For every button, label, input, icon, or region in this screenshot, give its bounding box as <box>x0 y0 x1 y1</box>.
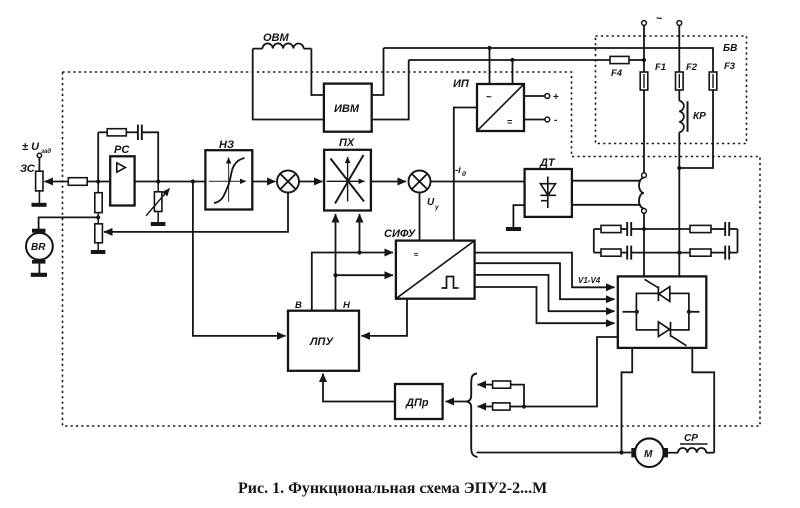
nonlinear block NZ <box>205 150 252 209</box>
label KR <box>693 111 706 122</box>
bridge output left step <box>622 348 633 453</box>
label DT <box>539 157 556 169</box>
junction phase B with F3 <box>677 166 681 170</box>
svg-text:БВ: БВ <box>723 43 737 54</box>
svg-text:РС: РС <box>114 144 130 156</box>
fuse F1 <box>640 72 648 90</box>
bridge left node <box>623 310 639 314</box>
snubber resistor R3 <box>594 249 627 256</box>
junction phase A snubber <box>642 227 646 231</box>
label F1 <box>655 62 666 73</box>
label F2 <box>686 62 698 73</box>
snubber capacitor C1 <box>627 222 631 236</box>
supply terminal B <box>677 21 682 26</box>
snubber capacitor C3 <box>627 246 631 260</box>
label -id <box>455 165 466 178</box>
wire OVM right to IVM <box>311 49 324 95</box>
SIFU output pulse line 1 <box>475 253 615 288</box>
svg-text:ДТ: ДТ <box>539 157 556 169</box>
snubber row1 right wire <box>729 228 737 230</box>
label LPU <box>309 336 334 348</box>
fuse F3 <box>709 72 717 90</box>
label plus <box>553 92 559 103</box>
field winding OVM coil <box>253 43 312 48</box>
CT coil <box>639 178 644 209</box>
svg-text:Рис. 1. Функциональная схема Э: Рис. 1. Функциональная схема ЭПУ2-2...М <box>238 480 547 497</box>
wire SIFU bottom to LPU right <box>362 299 408 336</box>
SIFU diagonal <box>396 241 475 299</box>
wire branch up to PX input 2 <box>359 214 361 253</box>
SIFU output pulse line 4 <box>475 287 615 323</box>
label M <box>644 449 653 460</box>
snubber resistor R2 <box>690 225 725 232</box>
snubber left bracket <box>593 229 595 253</box>
wire node B to BR <box>39 217 99 229</box>
svg-text:ОВМ: ОВМ <box>263 32 290 44</box>
label BR <box>31 242 46 253</box>
wire mult2 down to SIFU <box>419 193 421 241</box>
snubber right bracket <box>737 229 739 253</box>
junction on N line <box>333 273 337 277</box>
wire resistor to capacitor <box>126 131 137 133</box>
multiplier M2 <box>409 171 431 193</box>
node A junction <box>96 179 100 183</box>
label DPr <box>405 397 429 409</box>
supply terminal A <box>642 21 647 26</box>
DT thyristor symbol <box>540 177 556 209</box>
label F3 <box>724 61 736 72</box>
svg-text:V1-V4: V1-V4 <box>578 276 601 285</box>
current sensor block DT <box>525 169 572 217</box>
wire armature sense from bridge <box>524 337 618 407</box>
snubber capacitor C4 <box>725 246 729 260</box>
svg-text:U: U <box>427 197 435 208</box>
label PC <box>114 144 130 156</box>
node C junction <box>156 179 160 183</box>
wire brace to DPr with arrow <box>446 401 469 403</box>
IP dc symbol <box>507 117 512 127</box>
ac supply line 1 <box>384 48 714 72</box>
junction phase B snubber <box>677 251 681 255</box>
PX diagonal rising <box>335 155 364 204</box>
snubber resistor R1 <box>594 225 627 232</box>
bridge inner loop <box>636 293 689 330</box>
label V <box>295 300 302 311</box>
IP diagonal <box>477 84 524 131</box>
PX diagonal falling <box>331 159 365 202</box>
svg-text:≈: ≈ <box>414 250 419 259</box>
ground under potentiometer <box>91 243 106 252</box>
ground under ZS <box>32 191 47 205</box>
thyristor top <box>645 279 670 301</box>
svg-text:М: М <box>644 449 653 460</box>
label ZS <box>20 163 36 175</box>
PX vertical axis <box>347 157 349 201</box>
motor M <box>631 438 668 467</box>
junction motor armature <box>619 450 623 454</box>
phase A wire to bridge <box>643 213 645 276</box>
NZ S-curve <box>214 158 245 203</box>
svg-text:± U: ± U <box>22 141 40 153</box>
svg-text:д: д <box>462 170 466 178</box>
wire IVM to ac line 2 <box>372 60 409 120</box>
label ±Uzad <box>22 141 51 155</box>
SIFU output pulse line 2 <box>475 263 615 299</box>
NZ vertical axis <box>228 158 230 202</box>
feedback right wire <box>142 132 158 181</box>
phase B wire upper <box>678 25 680 72</box>
svg-text:~: ~ <box>656 13 663 25</box>
label IP <box>453 78 470 90</box>
potentiometer ZS <box>36 171 43 191</box>
wire NZ to mult1 with arrow <box>252 181 275 183</box>
bridge output right step <box>692 348 714 453</box>
node B junction <box>96 215 100 219</box>
svg-text:у: у <box>434 204 439 211</box>
svg-text:Н: Н <box>343 300 351 311</box>
op-amp feedback left wire <box>98 132 107 181</box>
resistor divider upper <box>95 182 102 218</box>
wire DT to CT lower <box>572 204 640 206</box>
CT terminal lower <box>642 209 647 214</box>
terminal Uzad <box>37 153 41 157</box>
thyristor bridge block V1-V4 <box>618 276 707 348</box>
NZ horizontal axis <box>209 180 246 182</box>
wire V line from LPU up to SIFU input 1 <box>312 253 393 311</box>
field supply block IVM <box>324 84 372 132</box>
label OVM <box>263 32 290 44</box>
svg-text:В: В <box>295 300 302 311</box>
label PX <box>339 137 355 149</box>
armature divider resistor bottom <box>478 403 525 410</box>
logic block LPU <box>288 311 359 371</box>
resistor R input <box>68 178 87 186</box>
snubber resistor R4 <box>690 249 725 256</box>
feedback capacitor <box>138 125 142 140</box>
snubber row1 wire <box>631 228 690 230</box>
potentiometer feedback divider <box>95 217 103 242</box>
wire DPr to LPU bottom <box>323 374 395 402</box>
SIFU approx symbol <box>414 250 419 259</box>
svg-text:СР: СР <box>684 433 698 444</box>
snubber capacitor C2 <box>725 222 729 236</box>
SIFU output pulse line 3 <box>475 275 615 311</box>
wire to node A <box>87 181 110 183</box>
svg-text:F2: F2 <box>686 62 698 73</box>
svg-text:КР: КР <box>693 111 706 122</box>
svg-text:ДПр: ДПр <box>405 397 429 409</box>
ground under variable resistor <box>151 212 166 225</box>
node D junction <box>191 179 195 183</box>
wire mult2 to DT <box>431 181 525 183</box>
svg-text:ЗС: ЗС <box>20 163 36 175</box>
label SIFU <box>384 228 417 240</box>
snubber row2 wire <box>631 252 690 254</box>
wire brace to motor <box>477 452 632 454</box>
wire IVM to ac line 1 <box>372 48 384 95</box>
svg-text:ИВМ: ИВМ <box>334 103 360 115</box>
snubber row2 right wire <box>729 252 737 254</box>
IP minus output <box>524 117 550 122</box>
label Uy <box>427 197 439 211</box>
wire PX to mult2 with arrow <box>371 181 406 183</box>
SIFU pulse symbol <box>442 277 459 289</box>
wire speed feedback from mult1 to pot wiper arrow <box>104 193 288 232</box>
wire PC out to node C <box>135 181 206 183</box>
phase B wire to junction <box>678 132 680 276</box>
feedback resistor <box>107 129 126 136</box>
SR underline <box>680 443 708 445</box>
bridge right node <box>687 310 700 314</box>
outer dashed cabinet box <box>63 72 761 426</box>
power supply block IP <box>477 84 524 131</box>
label N <box>343 300 351 311</box>
svg-text:СИФУ: СИФУ <box>384 228 417 240</box>
IP tap from ac line 2 <box>510 58 514 84</box>
label tilde <box>656 13 663 25</box>
label F4 <box>611 68 623 79</box>
wire DT left lower to ground <box>506 205 525 229</box>
svg-text:F4: F4 <box>611 68 623 79</box>
label minus <box>554 115 557 126</box>
wire branch to SIFU input 2 <box>336 274 394 276</box>
dashed box BV <box>596 36 747 144</box>
svg-text:+: + <box>553 92 559 103</box>
svg-text:зад: зад <box>41 149 51 155</box>
fuse F4 <box>610 56 644 63</box>
label V1-V4 <box>578 276 601 285</box>
svg-text:ЛПУ: ЛПУ <box>309 336 334 348</box>
wire IP down to SIFU top <box>454 108 477 241</box>
phase control block SIFU <box>396 241 475 299</box>
label IVM <box>334 103 360 115</box>
label SR <box>684 433 698 444</box>
svg-text:ПХ: ПХ <box>339 137 355 149</box>
svg-text:-i: -i <box>455 165 461 176</box>
wire DT to CT upper <box>572 180 640 182</box>
fuse F2 <box>676 72 684 90</box>
junction on V line <box>357 250 361 254</box>
wire mult1 to PX with arrow <box>299 181 323 183</box>
relay coil KR <box>679 101 687 133</box>
smoothing reactor SR <box>678 448 706 453</box>
IP tap from ac line 1 <box>487 46 491 84</box>
brace terminal group <box>467 374 478 458</box>
svg-text:~: ~ <box>486 92 492 103</box>
wire F2 to KR <box>678 90 680 101</box>
IP plus output <box>524 94 550 99</box>
svg-text:F1: F1 <box>655 62 666 73</box>
svg-text:F3: F3 <box>724 61 736 72</box>
label BV <box>723 43 737 54</box>
junction ac line 2 on phase A <box>642 58 646 62</box>
armature divider resistor top <box>478 381 525 407</box>
thyristor bottom <box>658 322 686 346</box>
op-amp triangle symbol <box>117 163 126 172</box>
IP ac symbol <box>486 92 492 103</box>
junction armature divider <box>522 404 526 408</box>
ac supply line 2 <box>409 59 610 61</box>
caption text <box>238 480 547 497</box>
variable resistor at PC output <box>154 182 162 212</box>
wire F3 join <box>679 90 713 168</box>
ground under BR <box>31 264 47 275</box>
wire node D down to LPU left <box>193 182 286 336</box>
svg-text:BR: BR <box>31 242 46 253</box>
wire motor to SR <box>668 452 678 454</box>
PX horizontal axis <box>327 180 365 182</box>
wiper arrow into ZS pot <box>45 181 69 183</box>
phase A wire to CT <box>643 90 645 173</box>
CT terminal upper <box>642 173 647 178</box>
characteristic block PX <box>324 150 371 211</box>
tachogenerator BR <box>26 229 53 264</box>
svg-text:=: = <box>507 117 512 127</box>
wire terminal to pot ZS <box>38 158 40 172</box>
variable resistor arrow <box>146 189 170 216</box>
phase A wire upper <box>643 25 645 72</box>
multiplier M1 <box>277 171 299 193</box>
wire SR to bridge <box>706 452 714 454</box>
wire OVM left to IVM <box>253 49 324 120</box>
label NZ <box>219 139 234 151</box>
reversing sensor block DPr <box>395 384 443 419</box>
op-amp PC block <box>110 156 134 205</box>
svg-text:-: - <box>554 115 557 126</box>
svg-text:ИП: ИП <box>453 78 470 90</box>
wire N line from LPU up to PX input 1 <box>335 214 337 311</box>
